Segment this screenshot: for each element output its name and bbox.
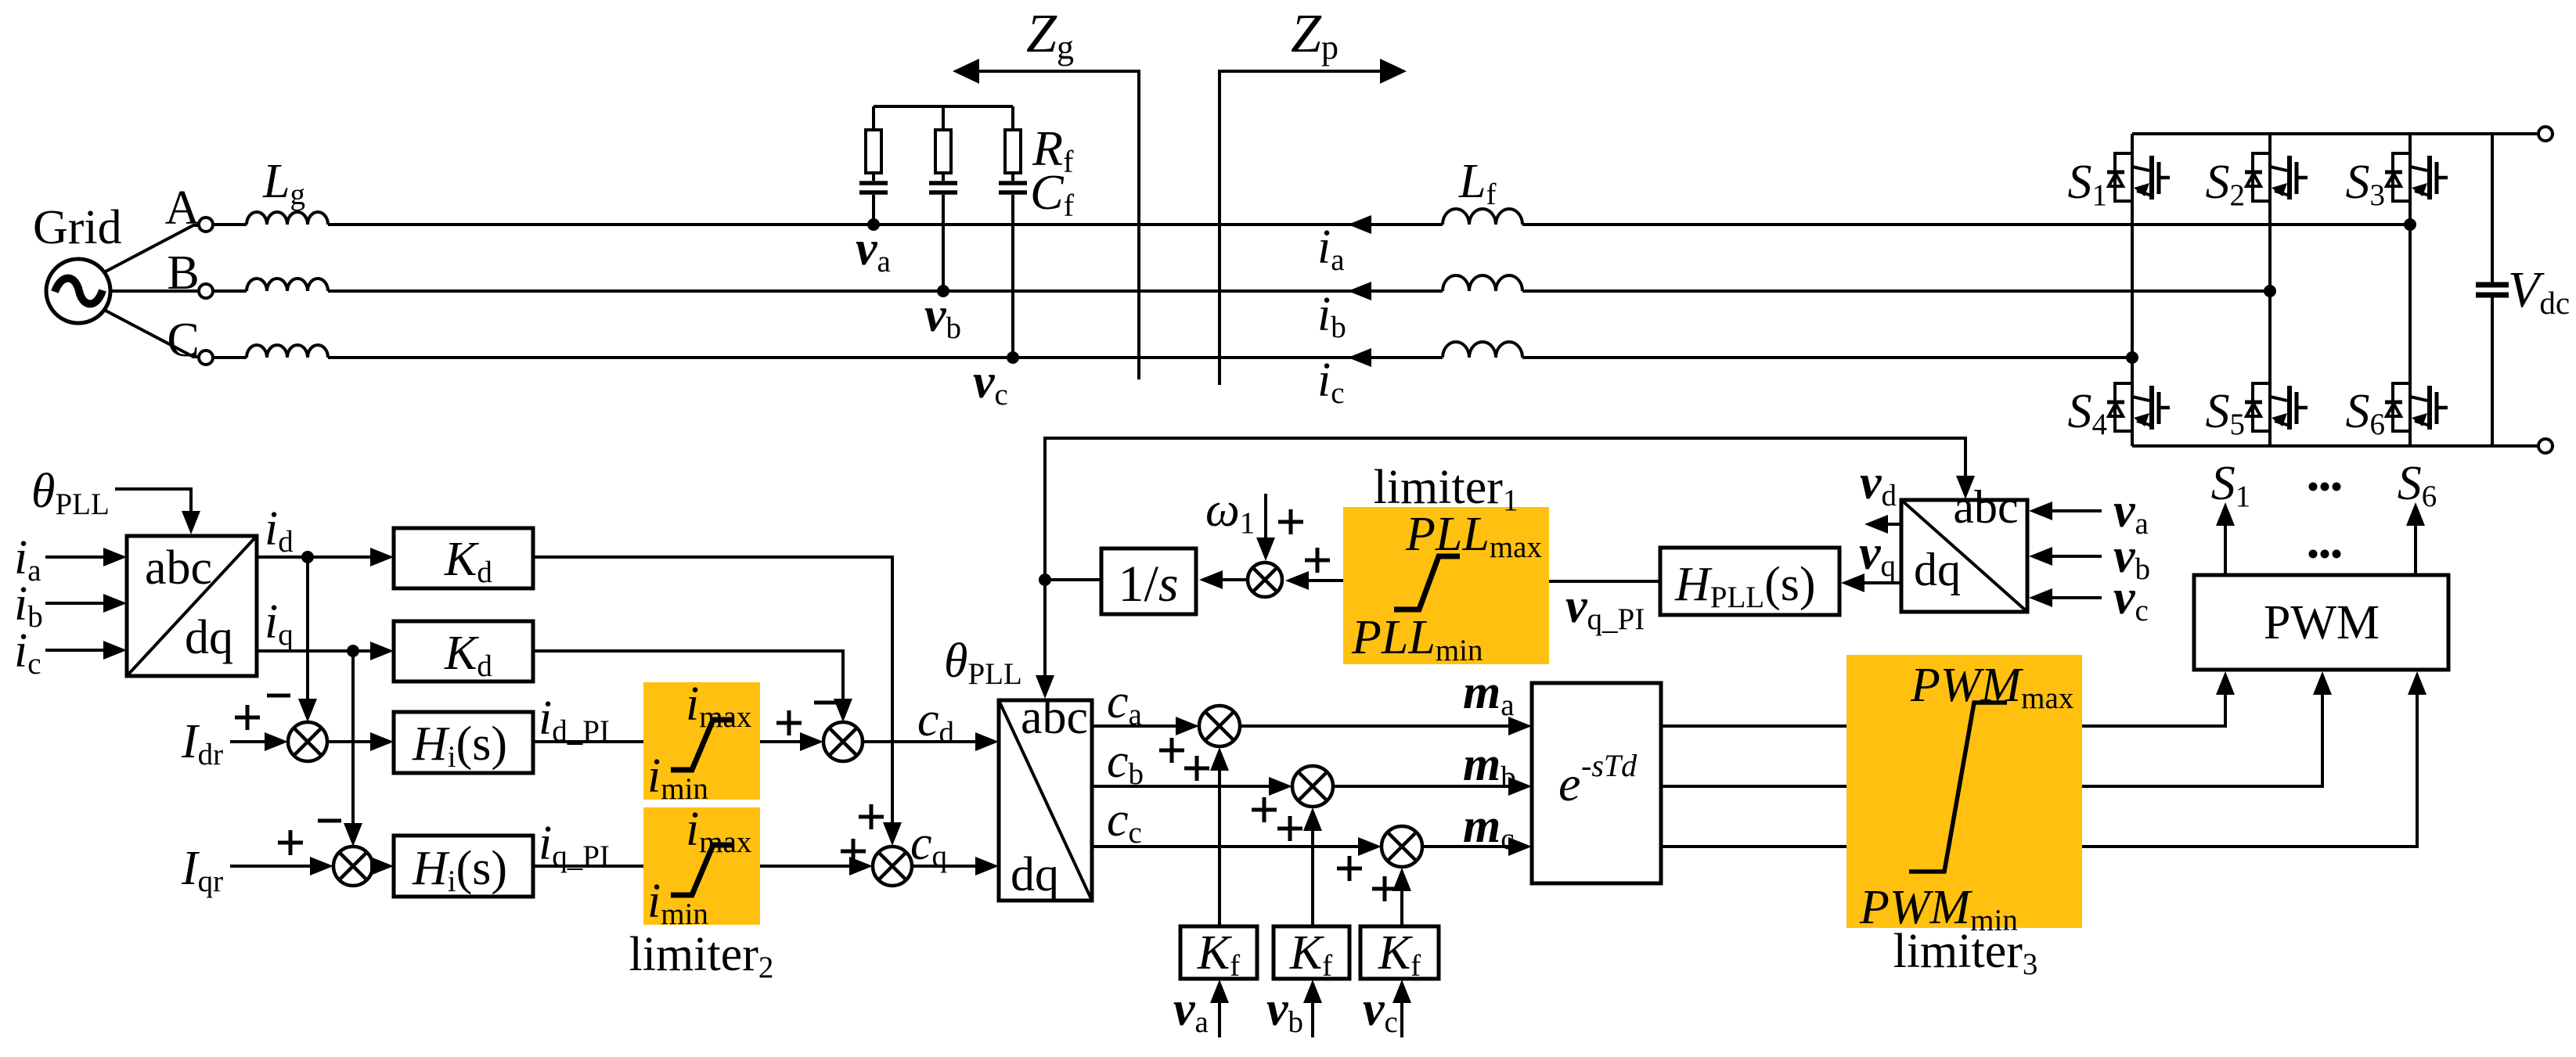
multiplier c (1382, 826, 1422, 867)
wire limiter3 out b (2082, 692, 2322, 786)
wire id branch down (306, 557, 309, 701)
summing junction omega (1248, 563, 1282, 597)
capacitor Cf phase a (859, 183, 888, 192)
node id branch (301, 551, 314, 563)
wire cd to abcdq2 (863, 740, 978, 743)
wire Iqr input (230, 865, 313, 868)
wire va into Kf1 (1218, 1000, 1221, 1037)
transfer block Hi(s) upper (394, 712, 533, 773)
wire vb input abcdq3 (2049, 555, 2102, 558)
node vb (937, 285, 949, 297)
wire limiter2a to sumcd (760, 740, 803, 743)
resistor Rf phase b (935, 130, 951, 173)
DC terminal top (2538, 127, 2553, 141)
capacitor Vdc (2476, 285, 2509, 295)
wire 1s to node (1045, 578, 1101, 581)
wire RC branch a mid (872, 173, 875, 181)
summing junction sum1 (288, 722, 327, 761)
resistor Rf phase a (866, 130, 881, 173)
abc-dq block 3 (1901, 500, 2027, 612)
capacitor Cf phase c (999, 183, 1027, 192)
wire vc into Kf3 (1400, 1000, 1403, 1037)
multiplier a (1199, 706, 1240, 746)
transistor S2 (2245, 153, 2308, 201)
node theta branch (1039, 573, 1051, 586)
summing junction cq (873, 847, 912, 886)
svg-text:PWM: PWM (2264, 596, 2380, 649)
wire Idr input (230, 740, 268, 743)
wire PWM out S6 (2414, 524, 2417, 575)
wire RC branch c lower (1011, 195, 1014, 358)
svg-text:abc: abc (145, 541, 212, 595)
wire limiter3 out c (2082, 692, 2417, 847)
summing junction sum2 (333, 847, 373, 886)
transistor S1 (2107, 153, 2170, 201)
minus sign cd top (814, 701, 838, 705)
arrow into sum1 top (298, 699, 317, 722)
inductor Lf phase C (1443, 342, 1522, 358)
wire phase C grid side (213, 356, 247, 359)
wire cc to mult c (1092, 845, 1361, 848)
wire DC top rail (2132, 132, 2538, 135)
transistor S4 (2107, 383, 2170, 431)
wire RC branch a lower (872, 195, 875, 225)
arrow into abcdq2 top (1036, 675, 1054, 699)
terminal B (199, 284, 213, 298)
wire id to Kd1 (257, 555, 373, 559)
wire vc input abcdq3 (2049, 596, 2102, 599)
wire ia input (45, 555, 106, 559)
svg-text:dq: dq (185, 611, 233, 664)
wire Kf3 to mult c (1400, 888, 1403, 926)
wire bridge leg 2 (2268, 134, 2272, 446)
inductor Lg phase C (247, 345, 328, 358)
wire RC branch b upper (942, 106, 945, 130)
plus sign cq left (841, 839, 866, 864)
wire mb to esTd (1333, 785, 1511, 788)
limiter1 box (1343, 507, 1549, 664)
svg-text:-sTd: -sTd (1581, 748, 1637, 783)
wire Kf2 to mult b (1311, 828, 1314, 926)
limiter3 box (1846, 655, 2082, 928)
node phase B to leg 2 (2264, 285, 2276, 297)
wire phase A right (1522, 223, 2410, 226)
limiter3 glyph (1909, 703, 2007, 872)
wire mc to limiter3 (1661, 845, 1846, 848)
plus signs mult c (1337, 856, 1362, 881)
wire phase B right (1522, 289, 2270, 293)
AC source Grid (46, 259, 110, 323)
plus sign Idr (235, 705, 260, 730)
wire grid to terminal C (104, 310, 198, 357)
svg-text:A: A (165, 182, 200, 235)
plus sign sumw input (1305, 548, 1330, 573)
transistor S5 (2245, 383, 2308, 431)
wire RC top bus (874, 105, 1013, 108)
svg-text:C: C (167, 314, 199, 367)
wire mb to limiter3 (1661, 785, 1846, 788)
resistor Rf phase c (1005, 130, 1021, 173)
wire DC bottom rail (2132, 444, 2538, 448)
wire Vdc branch (2491, 134, 2494, 446)
wire Kd2 to sumcd (531, 651, 843, 702)
Zp boundary line (1220, 71, 1382, 385)
svg-text:abc: abc (1953, 481, 2018, 533)
inductor Lf phase A (1443, 209, 1522, 225)
arrow into abcdq3 top (1956, 476, 1975, 499)
Zg boundary line (978, 71, 1139, 379)
svg-text:e: e (1558, 756, 1580, 811)
abc-dq block 2 (999, 700, 1092, 901)
gain block Kf1 (1180, 926, 1257, 979)
node va (867, 218, 880, 231)
minus sign sum2 (318, 819, 341, 823)
wire phase A grid side (213, 223, 247, 226)
wire feedback theta (1045, 438, 1965, 580)
Zp arrow (1380, 59, 1407, 84)
multiplier b (1292, 766, 1333, 807)
gain block Kd lower (394, 621, 533, 681)
svg-text:limiter3: limiter3 (1893, 925, 2038, 981)
wire RC branch b mid (942, 173, 945, 181)
wire cq to abcdq2 (912, 865, 978, 868)
gain block Kd upper (394, 528, 533, 588)
gain block Kf2 (1274, 926, 1349, 979)
minus sign sum1 (267, 694, 290, 698)
arrow sum2 to Hi2 (370, 857, 394, 875)
current arrow ic (1348, 348, 1371, 367)
terminal A (199, 218, 213, 232)
limiter2 upper box (643, 682, 760, 800)
wire RC branch b lower (942, 195, 945, 291)
terminal C (199, 351, 213, 365)
dots lower (2309, 550, 2318, 559)
transistor S3 (2385, 153, 2448, 201)
wire theta PLL to abcdq1 (115, 489, 191, 513)
arrow into sum2 top (344, 823, 362, 847)
wire omega1 input (1264, 494, 1267, 540)
wire Hi1 to limiter2a (531, 740, 643, 743)
plus sign cd left (776, 710, 802, 735)
wire Kf1 to mult a (1218, 768, 1221, 926)
svg-text:limiter1: limiter1 (1374, 461, 1519, 517)
wire va input abcdq3 (2049, 509, 2102, 512)
wire ca to mult a (1092, 724, 1179, 728)
inductor Lg phase B (247, 279, 328, 291)
wire grid to terminal A (104, 225, 198, 272)
integrator block 1/s (1101, 548, 1196, 614)
wire phase A middle (328, 223, 1443, 226)
wire PWM out S1 (2224, 524, 2227, 575)
wire RC branch c upper (1011, 106, 1014, 130)
current arrow ib (1348, 282, 1371, 300)
wire HPLL to limiter1 (1549, 580, 1660, 583)
arrow into sumcq top (883, 822, 902, 846)
wire iq branch down (351, 651, 355, 826)
capacitor Cf phase b (929, 183, 957, 192)
inductor Lg phase A (247, 212, 328, 225)
node vc (1007, 351, 1019, 364)
wire RC branch c mid (1011, 173, 1014, 181)
node iq branch (347, 645, 359, 657)
arrow omega1 into sum (1256, 537, 1275, 561)
node phase A to leg 3 (2404, 218, 2416, 231)
dots upper (2309, 483, 2318, 491)
arrow into sumcd top (834, 699, 852, 722)
svg-text:Grid: Grid (33, 201, 122, 254)
wire mc to esTd (1422, 845, 1511, 848)
plus sign Iqr (278, 830, 303, 855)
svg-text:B: B (167, 246, 199, 300)
svg-text:Hi(s): Hi(s) (412, 717, 507, 774)
wire limiter2b to sumcq (760, 865, 852, 868)
wire bridge leg 3 (2408, 134, 2412, 446)
wire vb into Kf2 (1311, 1000, 1314, 1037)
plus signs mult b (1252, 797, 1277, 822)
wire Hi2 to limiter2b (531, 865, 643, 868)
gain block Kf3 (1360, 926, 1439, 979)
wire phase B grid side (213, 289, 247, 293)
wire vq output (1860, 581, 1901, 584)
wire ma to esTd (1240, 724, 1511, 728)
svg-text:dq: dq (1914, 544, 1961, 595)
wire cb to mult b (1092, 785, 1272, 788)
wire limiter3 out a (2082, 692, 2225, 726)
transfer block Hi(s) lower (394, 836, 533, 897)
wire Kd1 to sumcq (531, 557, 892, 825)
svg-text:abc: abc (1021, 691, 1088, 744)
svg-text:limiter2: limiter2 (629, 928, 774, 984)
wire iq to Kd2 (257, 649, 373, 653)
wire ic input (45, 649, 106, 652)
limiter1 glyph (1394, 556, 1460, 609)
plus sign omega right (1278, 509, 1303, 534)
DC terminal bottom (2538, 439, 2553, 453)
limiter2 lower glyph (671, 845, 733, 895)
plus signs mult a (1159, 738, 1184, 763)
wire bridge leg 1 (2131, 134, 2134, 446)
inductor Lf phase B (1443, 275, 1522, 291)
wire RC branch a upper (872, 106, 875, 130)
summing junction cd (823, 722, 863, 761)
limiter2 upper glyph (671, 720, 733, 770)
plus sign cq top (859, 804, 884, 829)
abc-dq block 1 (127, 536, 257, 676)
svg-text:Hi(s): Hi(s) (412, 842, 507, 898)
transfer block HPLL (1660, 548, 1839, 615)
wire phase B middle (328, 289, 1443, 293)
wire ma to limiter3 (1661, 724, 1846, 728)
wire phase C middle (328, 356, 1443, 359)
limiter2 lower box (643, 807, 760, 925)
wire vd output (1885, 523, 1901, 526)
svg-text:1/s: 1/s (1118, 555, 1178, 613)
transistor S6 (2385, 383, 2448, 431)
wire ib input (45, 602, 106, 605)
wire sum1 to Hi1 (327, 740, 373, 743)
arrow into abcdq1 top (182, 511, 200, 534)
svg-text:dq: dq (1011, 848, 1059, 901)
PWM block (2194, 575, 2448, 670)
wire theta to abcdq2 (1043, 580, 1047, 678)
wire sumw to 1s (1220, 578, 1248, 581)
wire phase C right (1522, 356, 2132, 359)
node phase C to leg 1 (2126, 351, 2138, 364)
wire limiter1 to sumw (1304, 579, 1343, 582)
current arrow ia (1348, 215, 1371, 234)
wire grid to terminal B (110, 289, 198, 293)
Zg arrow (953, 59, 979, 84)
delay block e-sTd (1532, 683, 1661, 883)
